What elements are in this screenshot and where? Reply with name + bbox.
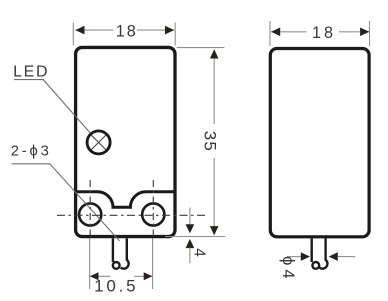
mounting bracket contour <box>75 192 177 208</box>
dimension 35: top extension line <box>177 47 225 49</box>
body outline side view <box>270 49 369 237</box>
dimension 4: lower arrow <box>186 239 195 248</box>
svg-text:2-ϕ3: 2-ϕ3 <box>11 143 52 159</box>
dimension 18 front: dimension line <box>75 29 113 31</box>
LED cross diagonal 1 <box>92 135 106 149</box>
dimension 18 front: value text <box>116 23 138 41</box>
cable end loop front view <box>113 262 120 269</box>
dimension 4: upper arrow <box>189 208 191 227</box>
dimension 35: bottom extension line <box>165 236 225 238</box>
vertical centerline right hole <box>152 180 154 239</box>
hole callout text 2-phi3 <box>11 143 52 159</box>
svg-text:18: 18 <box>312 24 336 42</box>
LED label text <box>13 64 49 81</box>
dimension phi4: left arrow <box>287 256 301 258</box>
hole callout leader line <box>12 164 120 241</box>
horizontal centerline through holes <box>57 214 208 216</box>
dimension 10.5: value text <box>94 277 138 296</box>
cable end loop side view <box>312 262 319 269</box>
cable side view right line with hook <box>319 238 327 268</box>
dimension 18 side: extension lines <box>269 21 271 46</box>
dimension 18 front: arrowheads <box>75 26 84 35</box>
extension line below right hole <box>152 239 154 290</box>
dimension 18 side: dimension line <box>271 31 306 33</box>
LED cross diagonal 2 <box>92 135 106 149</box>
extension line below left hole <box>89 239 91 290</box>
dimension 10.5: dimension line <box>90 275 110 277</box>
svg-text:18: 18 <box>116 23 138 41</box>
dimension 10.5: arrowheads <box>90 272 99 280</box>
svg-text:ϕ4: ϕ4 <box>279 256 297 282</box>
dimension phi4: value text rotated <box>279 256 297 282</box>
dimension phi4: right arrow <box>329 252 338 261</box>
LED leader line <box>14 80 90 133</box>
dimension 18 side: value text <box>312 24 336 42</box>
dimension 18 side: arrowheads <box>271 28 280 37</box>
dimension 35: dimension line <box>213 50 215 124</box>
dimension 4: value text rotated <box>190 248 207 257</box>
vertical centerline left hole <box>89 180 91 239</box>
dimension 18 front: extension lines <box>72 23 74 46</box>
cable side view left line <box>311 238 313 262</box>
body outline front view <box>76 47 175 236</box>
dimension 35: value text rotated <box>201 131 220 152</box>
svg-text:10.5: 10.5 <box>94 277 138 296</box>
mounting hole right <box>142 203 164 225</box>
cable front view right line with hook <box>121 238 129 268</box>
cable front view left line <box>112 238 114 262</box>
svg-text:35: 35 <box>201 131 220 152</box>
dimension 35: arrowheads <box>210 49 219 58</box>
LED indicator circle <box>87 131 110 154</box>
mounting hole left <box>79 203 101 225</box>
svg-text:4: 4 <box>190 248 207 257</box>
svg-text:LED: LED <box>13 64 49 81</box>
